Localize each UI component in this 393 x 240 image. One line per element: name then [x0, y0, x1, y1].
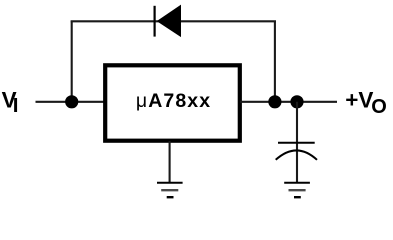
wire output [240, 101, 337, 103]
capacitor C1 top plate [278, 142, 315, 144]
wire input [36, 101, 105, 103]
ground center line1 [157, 182, 183, 184]
label VI [2, 88, 19, 118]
svg-text:O: O [371, 96, 387, 118]
wire capacitor lead [296, 102, 298, 183]
wire output-down [274, 21, 276, 102]
ground right line1 [284, 182, 310, 184]
svg-text:μA78xx: μA78xx [136, 90, 211, 112]
node A junction dot [65, 95, 78, 108]
ground center line3 [167, 196, 174, 198]
wire ground lead center [169, 141, 171, 183]
ground right line2 [289, 189, 306, 191]
diode D1 triangle [157, 5, 181, 38]
label +VO [345, 88, 387, 118]
wire input-up [71, 21, 73, 102]
ground right line3 [294, 196, 301, 198]
ground center line2 [161, 189, 178, 191]
capacitor C1 curved plate [276, 150, 317, 159]
regulator U1 box [105, 65, 240, 140]
wire top rail [71, 20, 276, 22]
svg-text:I: I [13, 94, 19, 117]
diode D1 cathode bar [154, 6, 156, 37]
node C junction dot [290, 95, 303, 108]
node B junction dot [268, 95, 281, 108]
svg-text:+V: +V [345, 88, 373, 113]
